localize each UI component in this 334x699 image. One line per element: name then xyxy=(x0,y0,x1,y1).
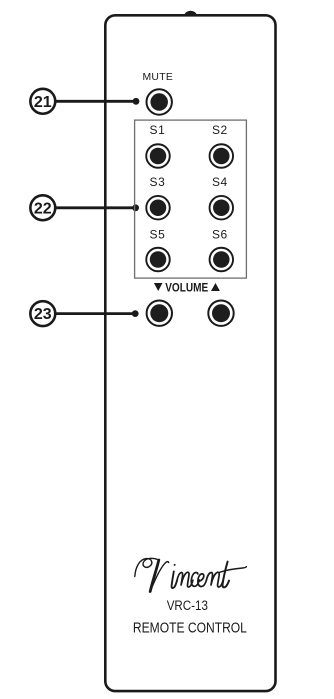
callout 23 leader line xyxy=(55,312,135,315)
svg-text:MUTE: MUTE xyxy=(142,72,173,83)
button S5 xyxy=(146,248,170,272)
button S6 xyxy=(210,248,234,272)
button S3 xyxy=(146,196,170,220)
svg-text:22: 22 xyxy=(34,200,52,217)
svg-text:S2: S2 xyxy=(212,123,228,137)
svg-text:S3: S3 xyxy=(150,175,166,189)
svg-text:VOLUME: VOLUME xyxy=(165,280,208,294)
letter e xyxy=(198,574,207,587)
remote body outline xyxy=(105,15,275,691)
svg-text:VRC-13: VRC-13 xyxy=(167,598,208,614)
svg-text:S4: S4 xyxy=(212,175,228,189)
letter t stem xyxy=(223,562,229,588)
letter i xyxy=(172,572,177,589)
Vincent script logo xyxy=(135,558,247,591)
button S2 xyxy=(210,144,234,168)
MUTE button xyxy=(147,89,172,114)
letter V main diagonal xyxy=(150,560,159,592)
volume up button xyxy=(208,301,233,326)
svg-text:REMOTE CONTROL: REMOTE CONTROL xyxy=(133,619,247,636)
callout 21 leader line xyxy=(55,100,136,103)
svg-text:S6: S6 xyxy=(212,227,228,241)
callout circle 22 xyxy=(30,195,55,220)
source selector panel xyxy=(135,120,247,278)
letter i dot xyxy=(174,564,176,566)
callout 22 leader line xyxy=(55,206,135,209)
volume up triangle xyxy=(211,283,220,291)
callout 23 end dot xyxy=(132,310,139,317)
svg-text:S1: S1 xyxy=(150,123,166,137)
letter n xyxy=(177,572,193,587)
callout circle 21 xyxy=(30,89,55,114)
volume down triangle xyxy=(154,283,163,291)
letter t crossbar sweep xyxy=(220,567,247,573)
callout circle 23 xyxy=(30,301,55,326)
letter V right arm xyxy=(150,562,168,592)
letter V flourish loop and top arc xyxy=(135,558,159,576)
volume down button xyxy=(147,301,172,326)
callout 22 end dot xyxy=(132,204,139,211)
callout 21 end dot xyxy=(133,98,140,105)
button S4 xyxy=(210,196,234,220)
button S1 xyxy=(146,144,170,168)
svg-text:S5: S5 xyxy=(150,227,166,241)
svg-text:23: 23 xyxy=(34,306,52,323)
IR bump on top edge xyxy=(184,11,197,16)
letter n second xyxy=(206,572,223,587)
letter c xyxy=(191,572,199,586)
svg-text:21: 21 xyxy=(34,94,52,111)
